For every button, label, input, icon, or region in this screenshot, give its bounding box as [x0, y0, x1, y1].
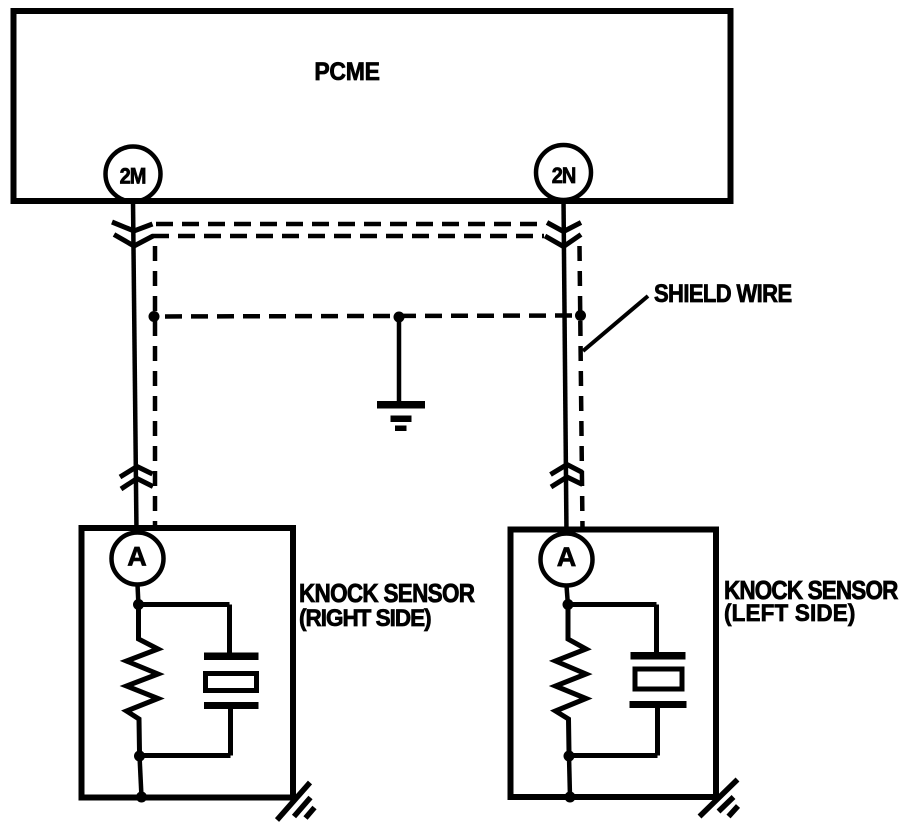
wire bottom branch horizontal (right-side sensor)	[140, 753, 231, 758]
pin 2N connector circle	[536, 145, 591, 200]
wire capacitor branch bottom (right-side sensor)	[228, 709, 233, 756]
svg-text:(LEFT SIDE): (LEFT SIDE)	[724, 599, 856, 626]
shield wire dashed upper run 2	[152, 234, 544, 239]
ground symbol	[377, 401, 425, 431]
chassis ground hatch (right-side sensor)	[277, 783, 315, 821]
node case junction dot (left-side sensor)	[565, 792, 576, 803]
node case junction dot (right-side sensor)	[136, 792, 147, 803]
junction dot right shield bus	[575, 310, 586, 321]
chassis ground hatch (left-side sensor)	[700, 780, 739, 817]
svg-text:2M: 2M	[120, 165, 146, 189]
knock sensor right-side box	[82, 528, 294, 798]
svg-text:A: A	[557, 542, 577, 572]
wire to case ground (right-side sensor)	[140, 756, 142, 798]
wire from pin 2N to left-side knock sensor	[564, 199, 567, 535]
pin 2M connector circle	[106, 147, 161, 202]
svg-text:A: A	[127, 542, 147, 572]
wire capacitor branch bottom (left-side sensor)	[655, 708, 660, 756]
leader line to shield wire	[583, 296, 648, 351]
resistor R (right-side sensor)	[127, 608, 159, 752]
svg-text:2N: 2N	[552, 164, 576, 188]
piezo element top plate (left-side sensor)	[631, 652, 686, 660]
connector break chevrons below 2M	[112, 222, 153, 246]
wire capacitor branch down (right-side sensor)	[227, 605, 232, 654]
wire A to top node (left-side sensor)	[567, 586, 569, 607]
resistor R (left-side sensor)	[556, 608, 587, 752]
shield wire dashed vertical left	[153, 246, 158, 528]
shield wire dashed vertical right	[580, 246, 583, 528]
shield wire dashed ground bus	[154, 316, 581, 317]
piezo element bottom plate (right-side sensor)	[204, 702, 259, 709]
junction dot ground tap	[394, 312, 405, 323]
piezo element top plate (right-side sensor)	[204, 653, 259, 661]
node top junction dot (left-side sensor)	[563, 599, 574, 610]
shield wire dashed upper run 1	[156, 222, 544, 227]
wire bottom branch horizontal (left-side sensor)	[569, 753, 658, 758]
wire from pin 2M to right-side knock sensor	[133, 201, 137, 533]
knock sensor right-side: ammeter circle A	[112, 533, 164, 585]
wire A to top node (right-side sensor)	[138, 585, 139, 607]
knock sensor left-side box	[511, 530, 717, 798]
piezo element crystal box (right-side sensor)	[206, 674, 257, 691]
wire capacitor branch down (left-side sensor)	[654, 605, 659, 653]
node bottom junction dot (right-side sensor)	[134, 751, 145, 762]
knock sensor left-side: ammeter circle A	[541, 534, 593, 586]
svg-text:SHIELD WIRE: SHIELD WIRE	[654, 281, 792, 309]
wire to case ground (left-side sensor)	[569, 756, 570, 798]
PCME box U1	[14, 11, 731, 201]
wire top branch horizontal (left-side sensor)	[568, 602, 657, 607]
piezo element crystal box (left-side sensor)	[635, 669, 682, 689]
node bottom junction dot (left-side sensor)	[564, 751, 575, 762]
junction dot left shield bus	[149, 311, 160, 322]
connector break chevrons below 2N	[545, 223, 581, 247]
svg-text:PCME: PCME	[314, 58, 379, 86]
wire top branch horizontal (right-side sensor)	[139, 602, 230, 607]
node top junction dot (right-side sensor)	[133, 599, 144, 610]
piezo element bottom plate (left-side sensor)	[630, 701, 687, 708]
svg-text:(RIGHT SIDE): (RIGHT SIDE)	[299, 604, 431, 631]
connector break chevrons above left-side sensor	[551, 465, 583, 488]
ground lead wire	[397, 317, 402, 402]
connector break chevrons above right-side sensor	[120, 467, 153, 490]
